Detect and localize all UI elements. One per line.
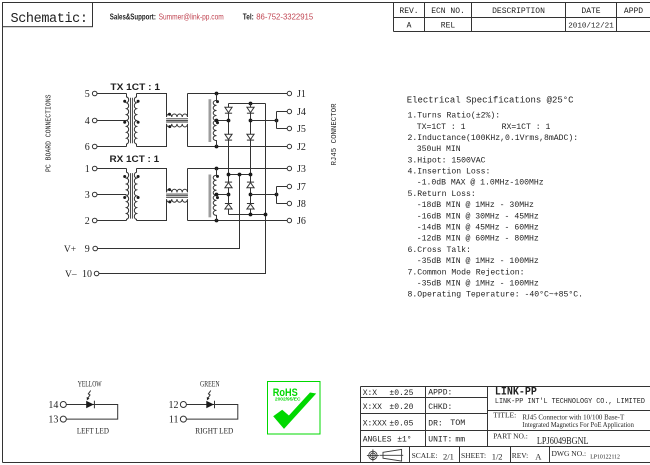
LED right pin 11 terminal [180,416,186,422]
svg-text:-14dB MIN @ 45MHz - 60MHz: -14dB MIN @ 45MHz - 60MHz [417,223,539,233]
svg-text:±0.20: ±0.20 [389,403,413,412]
svg-text:-35dB MIN @ 1MHz - 100MHz: -35dB MIN @ 1MHz - 100MHz [417,278,539,288]
svg-text:J8: J8 [297,199,306,210]
pin 9 terminal (V+) [93,246,98,251]
wire pin 1 to transformer [97,168,127,170]
svg-text:-12dB MIN @ 60MHz - 80MHz: -12dB MIN @ 60MHz - 80MHz [417,234,539,244]
wire pin 5 to transformer [97,93,127,95]
svg-text:1/2: 1/2 [492,452,503,462]
RX bridge middle junctions [227,193,253,197]
svg-text:LINK-PP INT'L TECHNOLOGY CO.,: LINK-PP INT'L TECHNOLOGY CO., LIMITED [495,398,645,406]
L1 phase dots [168,113,171,128]
svg-text:J7: J7 [297,182,306,193]
svg-text:11: 11 [169,415,179,426]
svg-text:APPD:: APPD: [428,389,452,398]
projection symbol [367,449,403,461]
pin 5 terminal [92,91,97,96]
diode D-RX-bottom x=228.5 [225,204,232,210]
svg-text:14: 14 [48,400,58,411]
svg-text:ANGLES: ANGLES [363,435,392,444]
svg-text:TX=1CT : 1: TX=1CT : 1 [417,123,466,132]
terminal J7 [287,184,291,188]
svg-text:J5: J5 [297,124,306,135]
LED right arrow [207,391,211,401]
svg-text:LEFT LED: LEFT LED [77,426,109,436]
terminal J1 [287,91,291,95]
L2 phase dots [168,188,171,203]
wire J7/J8 fork [277,187,288,204]
choke L1 core [166,119,188,122]
LED right pin 12 terminal [180,402,186,408]
wire pin 6 to transformer [97,146,127,148]
transformer T2 RX secondary winding [134,169,136,221]
svg-text:Tel:: Tel: [243,12,254,21]
T1 phase dots [123,100,139,124]
svg-text:1: 1 [85,164,90,175]
wire LED left loop [67,405,118,420]
svg-text:10: 10 [82,269,92,280]
terminal J8 [287,201,291,205]
svg-text:Integrated Magnetics For PoE A: Integrated Magnetics For PoE Application [522,422,634,429]
diode D-RX-top x=250.5 [247,182,254,188]
transformer T1 TX secondary winding [134,94,136,147]
wire T1 secondary top to choke L1 [137,94,167,118]
choke L1 top winding [167,94,188,118]
choke L2 bottom winding [167,199,188,220]
svg-text:CHKD:: CHKD: [428,403,452,412]
svg-text:A: A [535,451,542,461]
svg-text:RIGHT LED: RIGHT LED [195,426,233,436]
svg-text:2/1: 2/1 [443,452,454,462]
svg-text:9: 9 [85,244,90,255]
svg-text:PART NO.:: PART NO.: [493,432,528,441]
wire T2 secondary top to choke L2 [137,169,167,193]
svg-text:DWG NO.:: DWG NO.: [552,449,587,458]
svg-text:-18dB MIN @ 1MHz - 30MHz: -18dB MIN @ 1MHz - 30MHz [417,200,534,210]
svg-text:REL: REL [441,22,456,31]
choke L2 core [166,194,188,197]
diode D-TX-bottom x=250.5 [247,134,254,140]
svg-text:5: 5 [85,89,90,100]
terminal J2 [287,144,291,148]
svg-text:TITLE:: TITLE: [493,410,516,419]
wire bridge left column [228,104,230,215]
svg-text:±0.25: ±0.25 [389,389,413,398]
wire AT2 center tap [217,194,229,196]
svg-text:RJ45 Connector with 10/100 Bas: RJ45 Connector with 10/100 Base-T [522,414,625,421]
svg-text:1.Turns Ratio(±2%):: 1.Turns Ratio(±2%): [408,111,501,121]
title block grid [361,387,650,463]
svg-text:PC BOARD CONNECTIONS: PC BOARD CONNECTIONS [46,95,54,173]
TX bridge middle junctions [227,119,253,123]
wire pin 2 to transformer [97,220,127,222]
svg-text:GREEN: GREEN [200,379,220,389]
LED left pin 14 terminal [60,402,66,408]
svg-text:X:XXX: X:XXX [363,419,387,428]
wire AT1 center tap [217,120,229,122]
terminal J6 [287,218,291,222]
wire pin 4 to transformer [97,120,127,122]
diode D-TX-top x=228.5 [225,107,232,113]
pin 4 terminal [92,118,97,123]
wire node J3 row [188,168,288,170]
svg-text:8.Operating Teperature: -40°C~: 8.Operating Teperature: -40°C~+85°C. [408,290,584,300]
diode D-RX-top x=228.5 [225,182,232,188]
svg-text:-16dB MIN @ 30MHz - 45MHz: -16dB MIN @ 30MHz - 45MHz [417,211,539,221]
svg-text:J6: J6 [297,216,306,227]
wire LED right loop [187,405,238,420]
RoHS checkmark [273,393,316,429]
svg-text:2: 2 [85,216,90,227]
svg-text:Sales&Support:: Sales&Support: [110,12,156,21]
svg-text:J3: J3 [297,164,306,175]
LED left arrow [87,391,91,401]
transformer T2 core [131,173,133,219]
svg-text:-1.0dB MAX @ 1.0MHz-100MHz: -1.0dB MAX @ 1.0MHz-100MHz [417,178,544,188]
wire T2 secondary bottom to choke L2 [137,199,167,220]
svg-text:X:XX: X:XX [363,403,382,412]
svg-text:4: 4 [85,116,90,127]
svg-text:DATE: DATE [581,7,600,16]
LED left pin 13 terminal [60,416,66,422]
svg-text:±0.05: ±0.05 [389,419,413,428]
autotransformer AT1 core bar [209,99,212,142]
svg-text:12: 12 [169,400,179,411]
pin 6 terminal [92,144,97,149]
svg-text:ECN NO.: ECN NO. [431,7,465,16]
pin 3 terminal [92,192,97,197]
wire bridge right column [250,104,252,215]
svg-text:Schematic:: Schematic: [11,12,89,27]
svg-text:LP10122112: LP10122112 [590,455,620,461]
svg-text:5.Return Loss:: 5.Return Loss: [408,190,476,199]
svg-text:REV.: REV. [399,7,418,16]
svg-text:X:X: X:X [363,389,378,398]
wire RX bridge bottom rail [229,214,266,216]
svg-text:6: 6 [85,142,90,153]
svg-text:2002/95/EC: 2002/95/EC [275,397,301,403]
diode D-RX-bottom x=250.5 [247,204,254,210]
svg-text:SCALE:: SCALE: [412,451,438,460]
pin 10 terminal (V-) [94,271,99,276]
revision table [394,3,650,32]
transformer T1 TX primary winding [127,94,129,147]
svg-text:RX=1CT : 1: RX=1CT : 1 [502,123,551,132]
svg-text:UNIT:: UNIT: [428,435,452,444]
LED left diode [86,401,94,409]
wire node J6 row [188,220,288,222]
svg-text:V+: V+ [64,245,76,255]
wire RX middle to J7/J8 fork [251,194,277,196]
autotransformer AT2 winding [213,169,216,221]
choke L1 bottom winding [167,124,188,147]
svg-text:350uH MIN: 350uH MIN [417,145,461,154]
svg-text:SHEET:: SHEET: [461,451,486,460]
svg-text:A: A [407,22,412,31]
autotransformer AT1 winding [213,94,216,147]
diode D-TX-bottom x=228.5 [225,134,232,140]
AT2 phase dots [216,175,219,199]
svg-text:6.Cross Talk:: 6.Cross Talk: [408,245,471,255]
svg-text:J1: J1 [297,89,306,100]
svg-text:DR:: DR: [428,419,442,428]
svg-text:86-752-3322915: 86-752-3322915 [256,12,313,21]
svg-text:RJ45 CONNECTOR: RJ45 CONNECTOR [331,103,339,166]
terminal J3 [287,166,291,170]
wire pin 3 to transformer [97,194,127,196]
wire V+ pin 9 to bridge [98,175,240,249]
wire T1 secondary bottom to choke L1 [137,124,167,147]
terminal J5 [287,126,291,130]
svg-text:-35dB MIN @ 1MHz - 100MHz: -35dB MIN @ 1MHz - 100MHz [417,256,539,266]
pin 2 terminal [92,218,97,223]
svg-text:YELLOW: YELLOW [78,379,102,389]
svg-text:V–: V– [65,270,77,280]
svg-text:J2: J2 [297,142,306,153]
svg-text:RX 1CT : 1: RX 1CT : 1 [110,154,160,164]
svg-text:TOM: TOM [450,418,465,428]
transformer T1 core [131,98,133,144]
autotransformer AT2 core bar [209,175,212,218]
svg-text:±1°: ±1° [397,435,411,444]
svg-text:LINK-PP: LINK-PP [495,387,537,399]
svg-text:TX 1CT : 1: TX 1CT : 1 [110,82,160,92]
svg-text:3: 3 [85,190,90,201]
svg-text:2010/12/21: 2010/12/21 [568,23,614,31]
transformer T2 RX primary winding [127,169,129,221]
wire J4/J5 fork [277,112,288,129]
svg-text:2.Inductance(100KHz,0.1Vrms,8m: 2.Inductance(100KHz,0.1Vrms,8mADC): [408,133,579,143]
svg-text:APPD: APPD [624,7,643,16]
wire V+ rail (bridge mid rail) [229,174,251,176]
wire TX bridge top rail [229,103,266,105]
wire node J1 row [188,93,288,95]
svg-text:13: 13 [48,415,58,426]
wire node J2 row [188,146,288,148]
RoHS logo box [268,382,321,435]
AT1 phase dots [216,100,219,124]
diode D-TX-top x=250.5 [247,107,254,113]
svg-text:4.Insertion Loss:: 4.Insertion Loss: [408,167,491,177]
schematic title box [3,3,93,27]
svg-text:7.Common Mode Rejection:: 7.Common Mode Rejection: [408,267,525,277]
T2 phase dots [123,175,139,199]
LED right diode [206,401,214,409]
svg-text:Electrical Specifications @25°: Electrical Specifications @25°C [407,95,574,105]
wire V- pin 10 to bridge [99,104,266,274]
terminal J4 [287,109,291,113]
svg-text:REV:: REV: [512,451,529,460]
wire to J4/J5 fork [251,120,277,122]
svg-text:mm: mm [455,436,465,445]
choke L2 top winding [167,169,188,193]
pin 1 terminal [92,166,97,171]
svg-text:Summer@link-pp.com: Summer@link-pp.com [159,12,224,21]
svg-text:LPJ6049BGNL: LPJ6049BGNL [537,435,589,447]
svg-text:3.Hipot: 1500VAC: 3.Hipot: 1500VAC [408,155,486,165]
svg-text:J4: J4 [297,107,306,118]
svg-text:DESCRIPTION: DESCRIPTION [492,7,545,16]
